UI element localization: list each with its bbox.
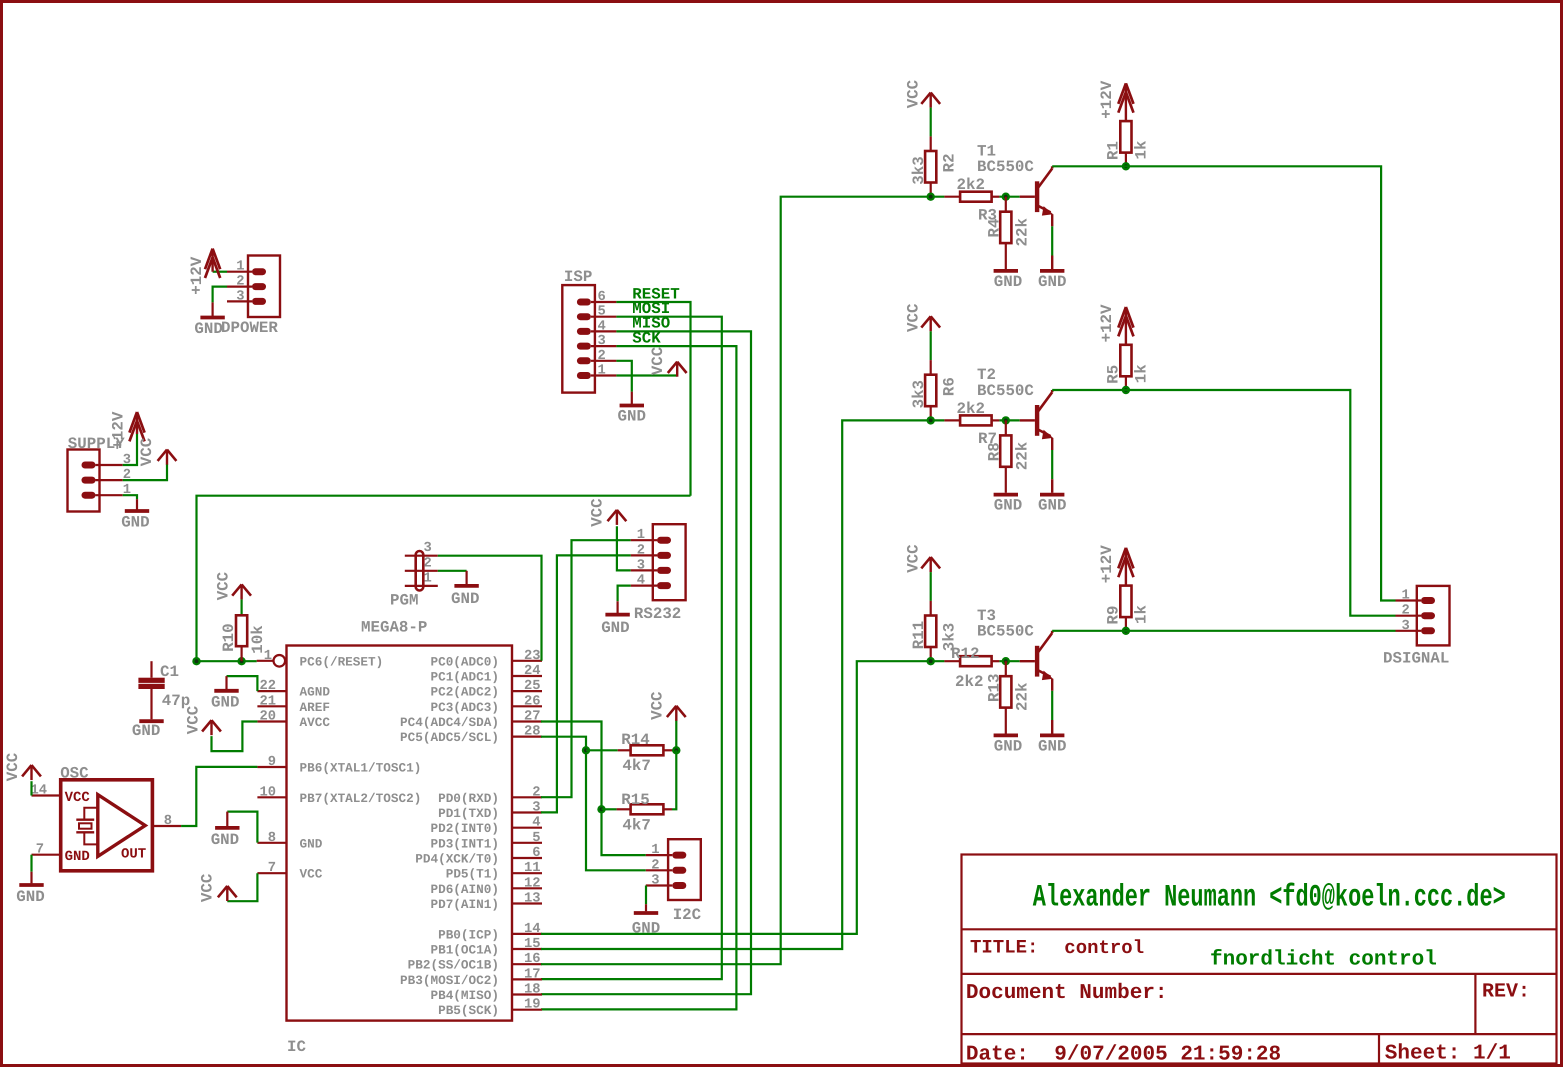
wire base net from PB1 to T2 [541,420,944,949]
svg-text:VCC: VCC [138,437,156,466]
svg-text:GND: GND [16,888,44,906]
svg-text:9: 9 [268,755,276,770]
wire R3 to base [999,196,1019,198]
DPOWER pin 3 stub [227,300,252,302]
junction node base net / R11 [927,657,935,665]
svg-text:PD7(AIN1): PD7(AIN1) [430,897,499,912]
svg-text:PD3(INT1): PD3(INT1) [430,836,499,851]
wire PC4 to R15 and I2C pin1 [541,722,646,856]
resistor R11 3k3 [925,616,936,648]
svg-text:R10: R10 [220,623,238,651]
ground at R4 [994,269,1018,273]
junction node collector/R9 [1122,627,1130,635]
resistor R10 10k [236,615,247,646]
svg-text:Document Number:: Document Number: [966,982,1168,1005]
wire PC5 to R14 and I2C pin2 [541,737,646,871]
svg-text:PB4(MISO): PB4(MISO) [430,988,499,1003]
wire RS232 pin2 to PD1 [541,555,631,812]
wire RS232 pin1 to PD0 [541,540,631,797]
I2C pad pin 1 [672,852,686,859]
VCC supply symbol at RS232 [616,510,618,525]
svg-text:R12: R12 [951,645,979,663]
wire ISP pin1 to VCC [616,374,677,376]
svg-text:6: 6 [532,846,540,861]
svg-text:1k: 1k [1133,605,1151,624]
ground at AGND [225,676,227,689]
MCU pin 10 PB7(XTAL2/TOSC2) stub [257,796,286,798]
wire MCU GND pin to ground [227,812,257,843]
wire VCC to R6 [930,331,932,360]
junction node collector/R1 [1122,162,1130,170]
svg-text:OUT: OUT [121,846,146,862]
MCU pin 5 PD3(INT1) stub [512,842,542,844]
connector RS232 body [653,524,686,600]
svg-text:C1: C1 [160,663,179,681]
svg-text:+12V: +12V [110,411,128,449]
svg-text:4k7: 4k7 [622,757,650,775]
svg-text:14: 14 [30,784,47,799]
capacitor C1 47p [138,678,164,683]
junction node SDA/R15 [597,805,605,813]
svg-text:19: 19 [524,998,541,1013]
VCC supply symbol at R14 [675,706,677,721]
ISP pin 2 stub [591,360,616,362]
MCU pin 2 PD0(RXD) stub [512,796,542,798]
svg-text:2k2: 2k2 [957,400,985,418]
wire net MISO from ISP pin4 to PB4 [541,331,751,994]
svg-text:GND: GND [211,831,239,849]
svg-text:6: 6 [598,290,606,305]
svg-text:13: 13 [524,892,541,907]
ISP pad pin 2 [577,357,591,364]
svg-text:R4: R4 [985,218,1003,237]
DPOWER pad pin 2 [252,283,266,290]
svg-text:1: 1 [637,528,645,543]
ground at SUPPLY [136,499,138,509]
ground at R8 [994,493,1018,497]
svg-text:17: 17 [524,967,541,982]
svg-text:I2C: I2C [673,906,702,924]
svg-text:21: 21 [259,694,276,709]
svg-text:R13: R13 [985,674,1003,702]
wire SUPPLY pin1 to GND [123,495,137,499]
svg-text:GND: GND [132,722,160,740]
svg-text:GND: GND [65,849,90,865]
ground at C1 [139,719,163,723]
svg-text:2: 2 [598,349,606,364]
svg-text:PB1(OC1A): PB1(OC1A) [430,943,499,958]
resistor R13 22k [1005,661,1007,676]
wire SUPPLY pin3 to +12V [123,434,137,465]
wire emitter of T2 to GND [1051,438,1053,450]
wire AVCC to VCC [212,722,258,752]
PGM pin 3 stub [405,555,438,557]
svg-text:2: 2 [637,543,645,558]
svg-text:1: 1 [236,260,244,275]
svg-text:R11: R11 [910,621,928,649]
wire DPOWER pin2 to GND [213,287,227,303]
RS232 pin 1 stub [631,539,657,541]
wire PGM pin3 to PC0 [438,556,542,661]
svg-text:1: 1 [598,364,606,379]
svg-text:23: 23 [524,649,541,664]
wire R14 left [586,749,618,751]
svg-text:1: 1 [1402,589,1410,604]
svg-text:3: 3 [532,801,540,816]
MCU pin 11 PD5(T1) stub [512,872,542,874]
junction node R14/R15/VCC [672,746,680,754]
DPOWER pad pin 1 [252,268,266,275]
svg-text:PGM: PGM [390,592,418,610]
RS232 pin 4 stub [631,584,657,586]
svg-text:2: 2 [424,556,432,571]
svg-text:22: 22 [259,679,276,694]
svg-text:RS232: RS232 [634,605,681,623]
VCC supply symbol at OSC [30,765,32,780]
svg-text:PD2(INT0): PD2(INT0) [430,821,499,836]
junction node base net / R6 [927,416,935,424]
svg-text:PD0(RXD): PD0(RXD) [438,791,499,806]
resistor R5 1k [1120,345,1131,377]
svg-text:3k3: 3k3 [910,380,928,408]
svg-text:IC: IC [287,1038,306,1056]
junction node SCL/R14 [582,746,590,754]
svg-text:GND: GND [618,408,646,426]
wire OSC OUT to PB6 [181,767,257,826]
svg-text:PB0(ICP): PB0(ICP) [438,927,499,942]
OSC pin 14 stub [32,794,61,796]
DPOWER pad pin 3 [252,298,266,305]
svg-text:22k: 22k [1013,441,1031,470]
I2C pad pin 2 [672,867,686,874]
svg-text:PB6(XTAL1/TOSC1): PB6(XTAL1/TOSC1) [300,761,422,776]
svg-text:VCC: VCC [300,867,323,882]
wire collector T3 to DSIGNAL pin3 [1052,630,1395,632]
svg-text:Alexander Neumann <fd0@koeln.c: Alexander Neumann <fd0@koeln.ccc.de> [1033,880,1506,916]
MCU pin 21 AREF stub [257,705,286,707]
DSIGNAL pad pin 1 [1421,597,1435,604]
svg-text:3k3: 3k3 [910,156,928,184]
wire VCC to R11 [930,572,932,601]
svg-text:AGND: AGND [300,685,331,700]
svg-text:DSIGNAL: DSIGNAL [1383,649,1449,667]
ISP pad pin 1 [577,372,591,379]
MCU pin 16 PB2(SS/OC1B) stub [512,963,542,965]
MCU pin 4 PD2(INT0) stub [512,827,542,829]
resistor R3 2k2 [944,196,960,198]
VCC supply symbol at R6 [930,316,932,331]
title block frame [962,855,1557,1064]
svg-text:BC550C: BC550C [977,623,1034,641]
ground at PGM [466,571,468,584]
svg-text:2: 2 [236,275,244,290]
ground at MCU GND pin [226,812,228,827]
MCU pin 6 PD4(XCK/T0) stub [512,857,542,859]
svg-text:26: 26 [524,694,541,709]
connector I2C body [668,839,701,900]
wire MCU VCC pin to VCC [227,873,257,901]
I2C pad pin 3 [672,882,686,889]
VCC supply symbol at SUPPLY [166,450,168,465]
MCU pin 17 PB3(MOSI/OC2) stub [512,978,542,980]
svg-text:28: 28 [524,725,541,740]
MCU pin 25 PC2(ADC2) stub [512,690,542,692]
OSC buffer triangle [98,795,145,857]
wire net MOSI from ISP pin5 to PB3 [541,317,722,979]
resistor R9 1k [1120,586,1131,618]
svg-text:27: 27 [524,710,541,725]
+12V supply symbol at R1 [1125,85,1127,121]
svg-text:R6: R6 [940,377,958,396]
svg-text:10: 10 [259,785,276,800]
svg-text:R15: R15 [621,791,649,809]
+12V supply symbol at R9 [1125,550,1127,586]
svg-text:R1: R1 [1105,141,1123,160]
svg-text:R9: R9 [1105,606,1123,625]
DSIGNAL pin 1 stub [1396,599,1422,601]
svg-text:1: 1 [264,649,272,664]
svg-text:+12V: +12V [1098,545,1116,583]
svg-text:VCC: VCC [904,79,922,108]
junction node RESET/C1 [192,657,200,665]
wire emitter of T3 to GND [1051,679,1053,691]
DPOWER pin 2 stub [227,286,252,288]
wire emitter of T1 to GND [1051,214,1053,226]
svg-text:R8: R8 [985,442,1003,461]
PGM pin 1 stub [405,585,438,587]
VCC supply symbol at R11 [930,557,932,572]
svg-text:8: 8 [164,814,172,829]
svg-text:PD4(XCK/T0): PD4(XCK/T0) [415,852,499,867]
wire VCC to R10 [241,599,243,615]
resistor R2 3k3 [925,151,936,183]
ISP pin 6 stub [591,301,616,303]
ISP pin 5 stub [591,316,616,318]
resistor R8 22k [1005,420,1007,435]
svg-text:VCC: VCC [199,873,217,902]
ground at DPOWER [212,302,214,316]
svg-text:1k: 1k [1133,140,1151,159]
svg-text:2k2: 2k2 [957,176,985,194]
svg-text:R5: R5 [1105,365,1123,384]
svg-text:2: 2 [532,785,540,800]
wire DPOWER pin1 to +12V [213,271,227,273]
svg-text:BC550C: BC550C [977,382,1034,400]
SUPPLY pin 1 stub [96,494,123,496]
svg-text:1: 1 [424,571,432,586]
connector SUPPLY body [68,450,100,512]
ISP pad pin 5 [577,313,591,320]
svg-text:3: 3 [1402,619,1410,634]
junction node RESET/R10 [237,657,245,665]
wire collector T2 to DSIGNAL pin2 [1052,390,1395,616]
resistor R12 2k2 [944,660,960,662]
svg-text:VCC: VCC [184,705,202,734]
DPOWER pin 1 stub [227,271,252,273]
+12V supply symbol at SUPPLY [136,414,138,434]
svg-text:3: 3 [424,541,432,556]
svg-text:2: 2 [1402,604,1410,619]
+12V supply symbol at DPOWER [211,251,213,272]
svg-text:VCC: VCC [904,303,922,332]
svg-text:1k: 1k [1133,364,1151,383]
wire C1 top [150,661,152,678]
svg-text:Sheet: 1/1: Sheet: 1/1 [1385,1043,1511,1066]
resistor R7 2k2 [944,419,960,421]
svg-text:GND: GND [994,738,1022,756]
svg-text:GND: GND [994,497,1022,515]
I2C pin 1 stub [646,854,673,856]
junction node R12/R13/base [1002,657,1010,665]
svg-text:PC5(ADC5/SCL): PC5(ADC5/SCL) [400,730,499,745]
DSIGNAL pad pin 3 [1421,627,1435,634]
svg-text:+12V: +12V [1098,80,1116,118]
wire PGM pin2 to GND [438,570,467,572]
svg-text:BC550C: BC550C [977,158,1034,176]
svg-text:PB5(SCK): PB5(SCK) [438,1003,499,1018]
svg-text:PB7(XTAL2/TOSC2): PB7(XTAL2/TOSC2) [300,791,422,806]
RS232 pad pin 1 [657,537,671,544]
resistor R4 22k [1005,197,1007,212]
resistor R6 3k3 [925,375,936,407]
svg-text:PC0(ADC0): PC0(ADC0) [430,654,499,669]
MCU pin 1 PC6(/RESET) stub with inversion circle [257,660,273,662]
ground at OSC [30,872,32,884]
connector DSIGNAL body [1417,586,1450,646]
MCU pin 20 AVCC stub [257,720,286,722]
svg-text:3: 3 [598,334,606,349]
ISP pad pin 4 [577,328,591,335]
svg-text:PD1(TXD): PD1(TXD) [438,806,499,821]
svg-text:PC2(ADC2): PC2(ADC2) [430,685,499,700]
ISP pin 4 stub [591,330,616,332]
svg-text:4: 4 [532,816,540,831]
MCU pin 23 PC0(ADC0) stub [512,660,542,662]
transistor T1 BC550C [1020,195,1035,197]
wire AGND to ground [227,676,258,691]
svg-text:8: 8 [268,831,276,846]
svg-text:VCC: VCC [65,790,91,806]
junction node R3/R4/base [1002,193,1010,201]
DSIGNAL pin 3 stub [1396,630,1422,632]
svg-text:7: 7 [268,861,276,876]
wire net RESET from ISP pin6 [616,302,690,496]
transistor T2 BC550C [1020,419,1035,421]
SUPPLY pad pin 1 [82,492,96,499]
svg-text:7: 7 [36,843,44,858]
ground at R13 [994,734,1018,738]
MCU pin 3 PD1(TXD) stub [512,811,542,813]
RS232 pin 2 stub [631,554,657,556]
MCU pin 27 PC4(ADC4/SDA) stub [512,720,542,722]
wire collector T1 to DSIGNAL pin1 [1052,166,1395,600]
svg-text:R2: R2 [940,153,958,172]
svg-text:2k2: 2k2 [955,673,983,691]
+12V supply symbol at R5 [1125,309,1127,345]
svg-text:14: 14 [524,922,541,937]
MCU pin 13 PD7(AIN1) stub [512,902,542,904]
ISP pad pin 6 [577,299,591,306]
transistor T3 BC550C [1020,660,1035,662]
resistor R14 4k7 [631,745,664,755]
svg-text:PC6(/RESET): PC6(/RESET) [300,654,384,669]
svg-text:R14: R14 [621,731,650,749]
svg-text:GND: GND [1038,497,1066,515]
svg-text:12: 12 [524,876,541,891]
MCU pin 8 GND stub [257,842,286,844]
wire R15 right to VCC [672,750,676,809]
wire R15 left [602,808,617,810]
SUPPLY pad pin 2 [82,477,96,484]
wire OSC GND pin [30,855,32,872]
svg-text:REV:: REV: [1482,980,1530,1003]
ground at RS232 [616,601,618,613]
svg-text:AREF: AREF [300,700,330,715]
ground at T2 emitter [1040,493,1064,497]
svg-text:22k: 22k [1013,218,1031,247]
wire RS232 pin4 to GND [618,586,631,602]
svg-text:Date:: Date: [966,1043,1029,1066]
MCU pin 7 VCC stub [257,872,286,874]
svg-text:ISP: ISP [564,268,592,286]
MCU pin 26 PC3(ADC3) stub [512,705,542,707]
MCU pin 15 PB1(OC1A) stub [512,948,542,950]
wire I2C pin3 to GND [645,886,647,905]
svg-text:5: 5 [532,831,540,846]
svg-text:3: 3 [637,558,645,573]
MCU pin 9 PB6(XTAL1/TOSC1) stub [257,766,286,768]
MCU pin 22 AGND stub [257,690,286,692]
junction node collector/R5 [1122,386,1130,394]
ISP pad pin 3 [577,343,591,350]
svg-text:PC1(ADC1): PC1(ADC1) [430,670,499,685]
svg-text:AVCC: AVCC [300,715,331,730]
wire R12 to base [999,660,1019,662]
oscillator OSC body [61,780,153,871]
svg-text:GND: GND [300,836,323,851]
VCC supply symbol at ISP [676,362,678,377]
ISP pin 3 stub [591,345,616,347]
svg-text:+12V: +12V [188,256,206,294]
junction node base net / R2 [927,193,935,201]
wire R14 right to VCC [672,720,676,750]
svg-text:4k7: 4k7 [622,817,650,835]
svg-text:1: 1 [651,843,659,858]
OSC pin 7 stub [32,854,61,856]
svg-text:3: 3 [651,874,659,889]
ground at I2C [645,904,647,911]
I2C pin 3 stub [646,884,673,886]
svg-text:24: 24 [524,664,541,679]
ground at T3 emitter [1040,734,1064,738]
svg-text:GND: GND [1038,738,1066,756]
svg-text:25: 25 [524,679,541,694]
svg-text:PD6(AIN0): PD6(AIN0) [430,882,499,897]
svg-text:5: 5 [598,305,606,320]
svg-text:OSC: OSC [60,765,89,783]
MCU pin 12 PD6(AIN0) stub [512,887,542,889]
SUPPLY pad pin 3 [82,462,96,469]
ground at T1 emitter [1040,269,1064,273]
svg-text:fnordlicht control: fnordlicht control [1210,949,1437,972]
svg-text:GND: GND [194,320,222,338]
svg-text:DPOWER: DPOWER [221,319,278,337]
svg-text:GND: GND [211,693,239,711]
DSIGNAL pad pin 2 [1421,612,1435,619]
svg-text:3: 3 [236,289,244,304]
SUPPLY pin 2 stub [96,479,123,481]
svg-text:15: 15 [524,937,541,952]
